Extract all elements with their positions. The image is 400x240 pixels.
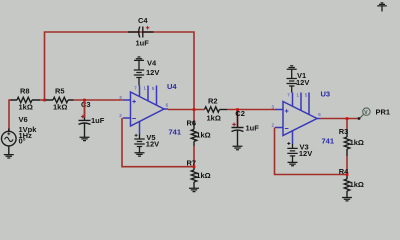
inverted ground above V1 bbox=[287, 66, 297, 69]
wire U4 output to R2 bbox=[168, 109, 205, 111]
ground below V5 bbox=[135, 153, 145, 156]
resistor R4 bbox=[344, 175, 349, 198]
V3 polarity plus bbox=[287, 142, 290, 145]
battery V3 bbox=[287, 144, 297, 162]
svg-text:V4: V4 bbox=[147, 58, 157, 67]
battery V4 bbox=[134, 60, 144, 85]
wire R6 lower to junction bbox=[193, 146, 195, 167]
V6 plus mark bbox=[7, 132, 10, 135]
svg-text:1kΩ: 1kΩ bbox=[196, 171, 210, 180]
junction U3 output node bbox=[346, 117, 349, 120]
battery V5 bbox=[134, 134, 144, 153]
svg-text:R2: R2 bbox=[208, 97, 218, 106]
ground below C3 bbox=[80, 137, 90, 140]
junction R6 R7 feedback bbox=[193, 165, 196, 168]
resistor R3 bbox=[344, 130, 349, 156]
wire R5 to opamp U4 plus input bbox=[74, 99, 123, 101]
wire R3 lower to junction bbox=[346, 156, 348, 175]
svg-text:R5: R5 bbox=[55, 87, 65, 96]
junction C2 top bbox=[236, 108, 239, 111]
resistor R7 bbox=[191, 167, 196, 189]
wire R2 to U3 plus input bbox=[227, 109, 275, 111]
resistor R5 bbox=[46, 97, 74, 102]
C3 polarity plus bbox=[81, 115, 85, 119]
ground below C2 bbox=[233, 146, 243, 149]
wire V6 to R8 bbox=[9, 100, 11, 132]
C4 polarity plus bbox=[146, 26, 150, 30]
svg-text:R8: R8 bbox=[20, 87, 30, 96]
svg-text:1kΩ: 1kΩ bbox=[350, 138, 364, 147]
svg-text:12V: 12V bbox=[296, 78, 309, 87]
svg-text:0°: 0° bbox=[19, 136, 26, 145]
op-amp U3 bbox=[275, 93, 321, 145]
svg-text:1kΩ: 1kΩ bbox=[53, 102, 67, 111]
svg-text:U3: U3 bbox=[321, 89, 331, 98]
node A junction R8/R5/C4 bbox=[43, 99, 46, 102]
svg-text:C3: C3 bbox=[81, 100, 91, 109]
resistor R8 bbox=[11, 97, 41, 102]
junction C3 top bbox=[83, 99, 86, 102]
battery V1 bbox=[287, 69, 297, 92]
svg-text:1uF: 1uF bbox=[246, 124, 260, 133]
svg-text:U4: U4 bbox=[167, 82, 177, 91]
wire C3 branch bbox=[84, 100, 86, 118]
wire R3 upper lead red bbox=[346, 119, 348, 131]
capacitor C2 bbox=[232, 110, 244, 147]
wire C4 feedback top loop bbox=[45, 32, 195, 110]
svg-text:V6: V6 bbox=[19, 115, 28, 124]
wire R6 upper lead red bbox=[193, 110, 195, 122]
svg-text:1kΩ: 1kΩ bbox=[19, 102, 33, 111]
svg-text:PR1: PR1 bbox=[376, 107, 391, 116]
ground below V6 bbox=[4, 155, 14, 158]
junction U4 output node bbox=[193, 108, 196, 111]
capacitor C4 bbox=[128, 27, 154, 38]
U3 plus minus marks bbox=[285, 109, 289, 128]
svg-text:1uF: 1uF bbox=[136, 38, 150, 47]
wire U4 inverting feedback bbox=[122, 118, 194, 167]
svg-text:741: 741 bbox=[322, 137, 335, 146]
wire U3 inverting feedback bbox=[275, 128, 348, 175]
inverted ground above V4 bbox=[134, 57, 144, 60]
C2 polarity plus bbox=[232, 123, 236, 127]
inverted ground top right corner bbox=[377, 3, 387, 12]
capacitor C3 bbox=[79, 118, 91, 138]
svg-text:12V: 12V bbox=[146, 68, 159, 77]
wire U3 output to probe bbox=[321, 118, 360, 120]
wire C3 branch overdraw above label bbox=[84, 100, 86, 118]
AC source V6 bbox=[2, 129, 17, 155]
svg-text:1kΩ: 1kΩ bbox=[350, 180, 364, 189]
resistor R2 bbox=[205, 107, 228, 112]
junction C3 top overdraw bbox=[83, 99, 86, 102]
svg-text:12V: 12V bbox=[146, 140, 159, 149]
wire C2 branch bbox=[237, 110, 239, 127]
svg-text:1uF: 1uF bbox=[91, 116, 105, 125]
U4 plus minus marks bbox=[132, 100, 136, 119]
probe PR1 bbox=[360, 108, 370, 118]
svg-text:12V: 12V bbox=[299, 149, 312, 158]
svg-text:R6: R6 bbox=[187, 119, 197, 128]
svg-text:C4: C4 bbox=[138, 16, 148, 25]
svg-text:R3: R3 bbox=[339, 127, 349, 136]
svg-text:741: 741 bbox=[169, 128, 182, 137]
V5 polarity plus bbox=[135, 134, 138, 137]
ground below R4 bbox=[342, 198, 352, 201]
op-amp U4 bbox=[123, 86, 168, 134]
junction R3 R4 feedback bbox=[346, 173, 349, 176]
svg-text:1kΩ: 1kΩ bbox=[196, 131, 210, 140]
ground below V3 bbox=[288, 162, 298, 165]
ground below R7 bbox=[189, 188, 199, 191]
resistor R6 bbox=[191, 121, 196, 146]
wire R8 to node A bbox=[40, 99, 45, 101]
svg-text:1kΩ: 1kΩ bbox=[207, 113, 221, 122]
